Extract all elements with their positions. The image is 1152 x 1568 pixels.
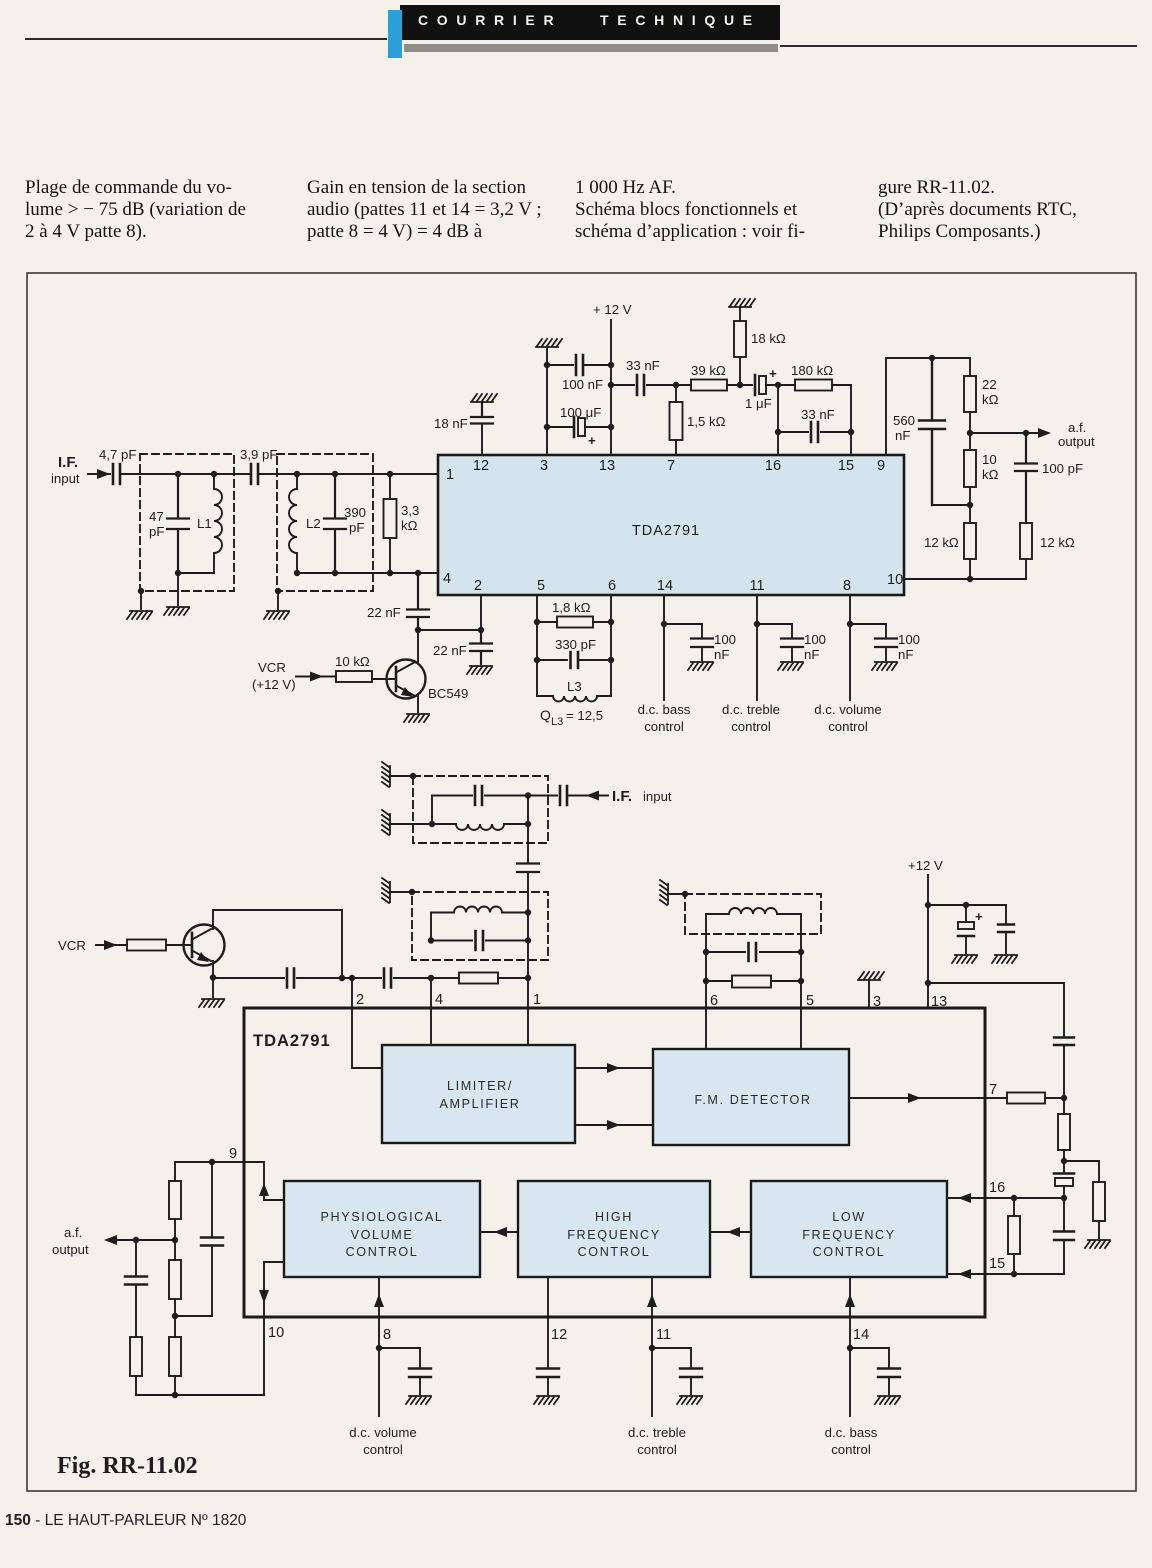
svg-text:BC549: BC549 <box>428 686 468 701</box>
body text columns <box>25 177 246 243</box>
pin 10 wire <box>904 578 1026 580</box>
pin 2 drop wire <box>351 978 353 1008</box>
resistor tank C <box>706 980 801 982</box>
capacitor 100uF electrolytic <box>547 417 611 437</box>
pin 8 line <box>378 1317 380 1416</box>
pin 10 wire below box <box>263 1317 265 1395</box>
pin 2 internal wire <box>352 1008 382 1068</box>
wire main vertical down <box>527 796 529 913</box>
svg-text:FREQUENCY: FREQUENCY <box>567 1228 660 1242</box>
svg-text:390: 390 <box>344 505 366 520</box>
a.f. output wire <box>970 432 1042 434</box>
svg-text:1,8 kΩ: 1,8 kΩ <box>552 600 591 615</box>
svg-text:5: 5 <box>806 993 814 1009</box>
ground emitter Q2 <box>199 999 224 1007</box>
wire ground to box corner <box>390 891 412 893</box>
pin 15 node wire <box>985 1273 1064 1275</box>
ground <box>875 1396 900 1404</box>
svg-text:4: 4 <box>435 992 443 1008</box>
dashed box tank 2 <box>277 454 373 591</box>
svg-text:input: input <box>643 789 672 804</box>
ground <box>872 662 897 670</box>
ground wall C <box>660 880 668 905</box>
svg-text:12: 12 <box>473 458 489 474</box>
wire pin 3 <box>868 981 870 1008</box>
resistor VCR base <box>127 940 166 951</box>
svg-text:+12 V: +12 V <box>908 858 943 873</box>
resistor Rc <box>130 1337 142 1376</box>
svg-text:13: 13 <box>599 458 615 474</box>
svg-text:VCR: VCR <box>58 938 86 953</box>
svg-text:PHYSIOLOGICAL: PHYSIOLOGICAL <box>321 1210 444 1224</box>
svg-text:kΩ: kΩ <box>401 518 418 533</box>
svg-text:3,3: 3,3 <box>401 503 419 518</box>
svg-text:8: 8 <box>383 1327 391 1343</box>
svg-text:pF: pF <box>349 520 364 535</box>
pin 3 rail <box>546 348 548 455</box>
wire to decoupling caps <box>928 904 1006 906</box>
svg-text:nF: nF <box>898 647 913 662</box>
coupling line with caps to pins 2/4/1 <box>213 977 528 979</box>
capacitor 560nF <box>919 358 945 505</box>
svg-text:100 pF: 100 pF <box>1042 461 1083 476</box>
svg-text:16: 16 <box>765 458 781 474</box>
pin 6 internal wire <box>705 1008 707 1049</box>
wire ground to inductor <box>390 823 432 825</box>
capacitor coupling 1 <box>287 969 294 988</box>
svg-text:330 pF: 330 pF <box>555 637 596 652</box>
wire high to phys <box>480 1231 518 1233</box>
ground <box>992 955 1017 963</box>
capacitor IF coupling <box>560 786 567 805</box>
svg-text:15: 15 <box>989 1256 1005 1272</box>
block HIGH FREQUENCY CONTROL <box>518 1181 710 1277</box>
inductor tank B <box>431 907 528 913</box>
svg-text:18 nF: 18 nF <box>434 416 468 431</box>
ground <box>952 955 977 963</box>
svg-text:kΩ: kΩ <box>982 392 999 407</box>
pin 5 internal wire <box>800 1008 802 1049</box>
ground <box>164 607 189 615</box>
svg-text:= 12,5: = 12,5 <box>566 708 603 723</box>
pin 12 internal wire <box>547 1277 549 1317</box>
svg-text:L3: L3 <box>567 679 582 694</box>
svg-text:d.c. bass: d.c. bass <box>638 702 691 717</box>
svg-text:10: 10 <box>887 572 903 588</box>
block LOW FREQUENCY CONTROL <box>751 1181 947 1277</box>
inductor tank A <box>432 796 528 831</box>
junction dots supply <box>544 362 614 430</box>
capacitor tank C <box>706 951 801 953</box>
pin 9 wire up/over <box>886 358 970 455</box>
svg-text:d.c. treble: d.c. treble <box>722 702 780 717</box>
resistor Rb <box>174 1240 176 1316</box>
capacitor ceramic +12V <box>1005 905 1007 953</box>
pin 9 wire into phys <box>244 1162 284 1200</box>
block PHYSIOLOGICAL VOLUME CONTROL <box>284 1181 480 1277</box>
wire low to high <box>710 1231 751 1233</box>
page footer <box>5 1512 246 1530</box>
VCR arrow <box>296 676 336 678</box>
capacitor 33nF <box>611 375 676 395</box>
svg-text:2: 2 <box>474 578 482 594</box>
svg-text:15: 15 <box>838 458 854 474</box>
svg-text:180 kΩ: 180 kΩ <box>791 363 833 378</box>
resistor 18k to ground <box>739 308 741 385</box>
capacitor electrolytic +12V <box>965 905 967 953</box>
wire down to pin 1 <box>527 913 529 1009</box>
pin 4 drop wire <box>430 978 432 1008</box>
svg-text:+ 12 V: + 12 V <box>593 302 632 317</box>
svg-text:L2: L2 <box>306 516 321 531</box>
svg-text:d.c. treble: d.c. treble <box>628 1425 686 1440</box>
wire tank1 bottom <box>178 572 214 574</box>
capacitor C 47pF <box>167 474 189 573</box>
svg-text:6: 6 <box>608 578 616 594</box>
svg-text:100 nF: 100 nF <box>562 377 603 392</box>
svg-text:F.M. DETECTOR: F.M. DETECTOR <box>694 1093 811 1107</box>
resistor pin 7 <box>985 1097 1064 1099</box>
svg-text:39 kΩ: 39 kΩ <box>691 363 726 378</box>
dashed tank box C <box>685 894 821 934</box>
svg-text:13: 13 <box>931 994 947 1010</box>
pin 8 d.c. volume line <box>849 595 851 700</box>
svg-text:TDA2791: TDA2791 <box>632 523 700 539</box>
pin 16 node wire <box>985 1197 1064 1199</box>
pin 12 line <box>547 1317 549 1394</box>
svg-text:22: 22 <box>982 377 997 392</box>
inductor L2 <box>289 474 297 573</box>
svg-text:FREQUENCY: FREQUENCY <box>802 1228 895 1242</box>
wire box2 corner to ground <box>277 591 279 609</box>
capacitor pin12 <box>537 1369 559 1378</box>
svg-text:1: 1 <box>446 467 454 483</box>
svg-text:control: control <box>363 1442 403 1457</box>
capacitor 100nF pin11 <box>781 639 803 648</box>
svg-text:10: 10 <box>982 452 997 467</box>
wire ground to box corner <box>390 775 413 777</box>
capacitor C 390pF <box>324 474 346 573</box>
capacitor interstage <box>517 864 539 873</box>
capacitor 3,9pF <box>251 464 258 484</box>
inductor L1 <box>214 474 222 573</box>
pin 1 internal wire <box>527 1008 529 1045</box>
ground <box>729 299 755 307</box>
resistor 22k <box>969 358 971 433</box>
svg-text:22 nF: 22 nF <box>367 605 401 620</box>
svg-text:8: 8 <box>843 578 851 594</box>
capacitor pin8 <box>409 1369 431 1378</box>
resistor vertical 7-16 <box>1063 1098 1065 1161</box>
svg-text:3: 3 <box>873 994 881 1010</box>
svg-text:L3: L3 <box>551 716 563 728</box>
junction dots 3,3k <box>387 471 393 576</box>
capacitor 100nF pin8 <box>875 639 897 648</box>
wire tank2 bottom to pin 4 <box>297 572 438 574</box>
wire ground to box corner <box>668 893 685 895</box>
pin 8 internal wire <box>378 1277 380 1317</box>
svg-text:LIMITER/: LIMITER/ <box>447 1079 513 1093</box>
resistor to ground <box>1093 1182 1105 1221</box>
phys to pin 10 wire <box>264 1262 284 1317</box>
resistor pin4-pin1 <box>459 973 498 984</box>
wire to right resistor <box>1064 1161 1099 1238</box>
svg-text:Fig. RR-11.02: Fig. RR-11.02 <box>57 1453 198 1479</box>
capacitor 22nF pin2 to ground <box>470 630 492 664</box>
svg-text:+: + <box>769 366 777 381</box>
capacitor 100nF <box>547 355 611 375</box>
ground <box>1085 1240 1110 1248</box>
collector loop wire <box>213 910 342 978</box>
ground wall B <box>382 878 390 903</box>
svg-text:control: control <box>731 719 771 734</box>
wire box1 corner to ground <box>140 591 142 609</box>
svg-text:22 nF: 22 nF <box>433 643 467 658</box>
I.F. input arrow <box>88 473 110 475</box>
svg-text:2: 2 <box>356 992 364 1008</box>
+12V rail pin 13 <box>927 875 929 1008</box>
branch wire <box>652 1348 691 1394</box>
pin 11 internal wire <box>651 1277 653 1317</box>
pin 14 d.c. bass line <box>663 595 665 700</box>
svg-text:CONTROL: CONTROL <box>578 1245 651 1259</box>
branch wire <box>379 1348 420 1394</box>
svg-text:6: 6 <box>710 993 718 1009</box>
pin 11 d.c. treble line <box>756 595 758 700</box>
svg-text:100 μF: 100 μF <box>560 405 601 420</box>
resistor 12k right <box>1020 523 1032 559</box>
capacitor electrolytic pin16 <box>1063 1161 1065 1198</box>
wire down to pin 15 <box>850 385 852 455</box>
svg-text:Q: Q <box>540 707 551 723</box>
+12V rail <box>610 320 612 455</box>
svg-text:+: + <box>588 433 596 448</box>
svg-text:100: 100 <box>714 632 736 647</box>
junction dots 39k node <box>673 382 781 388</box>
svg-text:16: 16 <box>989 1180 1005 1196</box>
resistor Ra <box>174 1162 176 1240</box>
capacitor 100nF pin14 <box>691 639 713 648</box>
svg-text:11: 11 <box>749 578 764 594</box>
svg-text:14: 14 <box>853 1327 869 1343</box>
pin 12 decoupling: wire <box>481 424 483 455</box>
junction dots L3 <box>534 619 614 663</box>
svg-text:control: control <box>644 719 684 734</box>
svg-text:9: 9 <box>229 1146 237 1162</box>
resistor 39k <box>676 384 752 386</box>
transistor Q1 BC549 <box>387 660 426 699</box>
capacitor 330pF <box>537 659 611 661</box>
pin 7 wire fm det out <box>849 1097 985 1099</box>
svg-text:1: 1 <box>533 992 541 1008</box>
capacitor 33nF pin16-15 <box>778 422 851 442</box>
svg-text:14: 14 <box>657 578 673 594</box>
capacitor pin11 <box>680 1369 702 1378</box>
wire to pin 1 <box>258 473 438 475</box>
svg-text:12 kΩ: 12 kΩ <box>924 535 959 550</box>
svg-text:12: 12 <box>551 1327 567 1343</box>
svg-text:kΩ: kΩ <box>982 467 999 482</box>
capacitor 1uF electrolytic <box>754 375 757 395</box>
ground pin 3 <box>858 972 884 980</box>
ground <box>688 662 713 670</box>
svg-text:1 μF: 1 μF <box>745 396 772 411</box>
svg-text:d.c. volume: d.c. volume <box>349 1425 416 1440</box>
capacitor on 1064 rail <box>1054 1038 1074 1046</box>
svg-text:input: input <box>51 471 80 486</box>
capacitor 18nF <box>471 403 493 424</box>
resistor 12k left <box>969 505 971 579</box>
label VCR arrow <box>96 944 127 946</box>
pin 2 wire <box>480 595 482 630</box>
ground <box>471 394 497 402</box>
junction dots tank2 <box>275 471 338 594</box>
junction dots tank1 <box>138 471 217 594</box>
svg-text:4,7 pF: 4,7 pF <box>99 447 136 462</box>
svg-text:1,5 kΩ: 1,5 kΩ <box>687 414 726 429</box>
svg-text:560: 560 <box>893 413 915 428</box>
L3 tank rails pins 5/6 <box>537 595 611 696</box>
inductor tank C <box>706 908 801 914</box>
svg-text:a.f.: a.f. <box>64 1225 82 1240</box>
block diagram labels <box>229 992 1005 1343</box>
ground wall A2 <box>382 810 390 835</box>
svg-text:33 nF: 33 nF <box>626 358 660 373</box>
svg-text:HIGH: HIGH <box>595 1210 633 1224</box>
middle labels <box>58 788 983 953</box>
svg-text:12 kΩ: 12 kΩ <box>1040 535 1075 550</box>
svg-text:LOW: LOW <box>832 1210 866 1224</box>
capacitor tank A <box>432 786 557 805</box>
ground <box>467 666 492 674</box>
resistor Rd <box>174 1316 176 1395</box>
svg-text:control: control <box>637 1442 677 1457</box>
resistor 1,8k <box>537 621 611 623</box>
svg-text:33 nF: 33 nF <box>801 407 835 422</box>
wire and arrow I.F. input <box>567 795 608 797</box>
dashed box tank 1 <box>140 454 234 591</box>
capacitor 100pF <box>1015 433 1037 523</box>
svg-text:9: 9 <box>877 458 885 474</box>
IC U1 TDA2791 body <box>438 455 904 595</box>
pin 14 line <box>849 1317 851 1416</box>
svg-text:control: control <box>828 719 868 734</box>
capacitor 22nF pin4 <box>407 573 429 630</box>
svg-text:AMPLIFIER: AMPLIFIER <box>440 1097 521 1111</box>
emitter node wire <box>212 978 214 998</box>
capacitor out <box>135 1240 137 1337</box>
pin 11 line <box>651 1317 653 1416</box>
svg-text:7: 7 <box>989 1082 997 1098</box>
capacitor 4,7pF <box>113 464 120 484</box>
svg-text:a.f.: a.f. <box>1068 420 1086 435</box>
svg-text:VOLUME: VOLUME <box>351 1228 414 1242</box>
wire to ground <box>177 573 179 605</box>
figure border frame <box>27 273 1136 1491</box>
svg-text:I.F.: I.F. <box>612 788 632 805</box>
ground <box>778 662 803 670</box>
svg-text:I.F.: I.F. <box>58 454 78 471</box>
resistor 10k base <box>336 671 372 682</box>
pin 16 rail <box>777 385 779 455</box>
capacitor pin9 shunt <box>211 1162 213 1316</box>
pin 15 internal wire <box>947 1273 985 1275</box>
pin 4 internal wire <box>430 1008 432 1045</box>
svg-text:nF: nF <box>895 428 910 443</box>
wire limiter to fm top <box>575 1067 653 1069</box>
block F.M. DETECTOR <box>653 1049 849 1145</box>
wire limiter to fm bottom <box>575 1124 653 1126</box>
ground wall A1 <box>382 762 390 787</box>
svg-text:(+12 V): (+12 V) <box>252 677 296 692</box>
svg-text:CONTROL: CONTROL <box>813 1245 886 1259</box>
resistor 180k <box>795 380 832 391</box>
ground <box>127 611 152 619</box>
pin 16 internal wire <box>947 1197 985 1199</box>
svg-text:nF: nF <box>714 647 729 662</box>
svg-text:nF: nF <box>804 647 819 662</box>
svg-text:control: control <box>831 1442 871 1457</box>
dashed tank box B <box>412 892 548 960</box>
resistor 1,5k on pin 7 <box>675 385 677 455</box>
pin 14 internal wire <box>849 1277 851 1317</box>
svg-text:VCR: VCR <box>258 660 286 675</box>
ground <box>677 1396 702 1404</box>
svg-text:100: 100 <box>804 632 826 647</box>
block LIMITER/AMPLIFIER <box>382 1045 575 1143</box>
svg-text:10: 10 <box>268 1325 284 1341</box>
svg-text:4: 4 <box>443 571 451 587</box>
branch wire <box>850 1348 889 1394</box>
ground emitter <box>404 714 429 722</box>
bottom node wire <box>136 1394 264 1396</box>
svg-text:d.c. bass: d.c. bass <box>825 1425 878 1440</box>
svg-text:11: 11 <box>656 1327 671 1343</box>
svg-text:3: 3 <box>540 458 548 474</box>
wire 22nF node to pin2 column <box>418 629 481 631</box>
svg-text:TDA2791: TDA2791 <box>253 1032 331 1050</box>
junction dots 22nF <box>415 570 484 633</box>
capacitor 16-15 <box>1063 1198 1065 1274</box>
resistor 10k <box>969 433 971 505</box>
bottom labels <box>52 1225 878 1479</box>
capacitor pin14 <box>878 1369 900 1378</box>
wire +12V to pin7 node <box>928 983 1064 1098</box>
svg-text:pF: pF <box>149 524 164 539</box>
ground <box>534 1396 559 1404</box>
header banner <box>25 38 387 40</box>
svg-text:47: 47 <box>149 509 164 524</box>
rails pins 6/5 <box>706 914 801 1008</box>
svg-text:output: output <box>52 1242 89 1257</box>
svg-text:10 kΩ: 10 kΩ <box>335 654 370 669</box>
svg-text:+: + <box>975 909 983 924</box>
inductor L3 <box>537 696 611 702</box>
svg-text:L1: L1 <box>197 516 212 531</box>
wire input to box1 <box>120 473 251 475</box>
ground <box>264 611 289 619</box>
capacitor tank B <box>431 913 528 941</box>
resistor 16-15 <box>1013 1198 1015 1274</box>
ground <box>536 339 562 347</box>
transistor Q2 VCR switch <box>184 925 225 966</box>
resistor 3,3k <box>389 474 391 573</box>
svg-text:7: 7 <box>667 458 675 474</box>
svg-text:100: 100 <box>898 632 920 647</box>
svg-text:18 kΩ: 18 kΩ <box>751 331 786 346</box>
a.f. output wire arrow <box>114 1239 175 1241</box>
ground <box>406 1396 431 1404</box>
